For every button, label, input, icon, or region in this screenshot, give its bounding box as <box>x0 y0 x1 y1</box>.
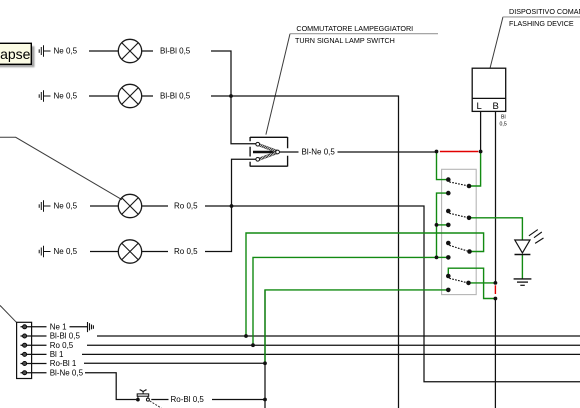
svg-text:Ne 0,5: Ne 0,5 <box>54 202 78 211</box>
svg-text:DISPOSITIVO COMANDO FRECCE: DISPOSITIVO COMANDO FRECCE <box>509 7 580 16</box>
svg-text:Ro-Bl 0,5: Ro-Bl 0,5 <box>171 395 205 404</box>
svg-text:Bl-Ne 0,5: Bl-Ne 0,5 <box>302 148 336 157</box>
svg-text:Ro-Bl 1: Ro-Bl 1 <box>50 359 77 368</box>
svg-text:Bl-Bl 0,5: Bl-Bl 0,5 <box>50 332 81 341</box>
svg-text:Ro 0,5: Ro 0,5 <box>174 247 198 256</box>
svg-text:Bl-Bl 0,5: Bl-Bl 0,5 <box>160 92 191 101</box>
svg-text:COMMUTATORE LAMPEGGIATORI: COMMUTATORE LAMPEGGIATORI <box>296 24 413 33</box>
svg-text:Ro 0,5: Ro 0,5 <box>50 341 74 350</box>
svg-text:FLASHING DEVICE: FLASHING DEVICE <box>509 19 574 28</box>
svg-text:L: L <box>477 101 482 112</box>
svg-text:lapse: lapse <box>0 46 31 62</box>
svg-text:Bl 1: Bl 1 <box>50 350 64 359</box>
svg-text:Ne 0,5: Ne 0,5 <box>54 92 78 101</box>
svg-text:Ne 0,5: Ne 0,5 <box>54 247 78 256</box>
svg-text:Ro 0,5: Ro 0,5 <box>174 202 198 211</box>
svg-text:Ne 0,5: Ne 0,5 <box>54 47 78 56</box>
svg-text:Bl-Bl 0,5: Bl-Bl 0,5 <box>160 47 191 56</box>
svg-text:Bl: Bl <box>501 115 506 121</box>
svg-text:Ne 1: Ne 1 <box>50 322 67 331</box>
svg-text:0,5: 0,5 <box>500 122 507 128</box>
svg-text:B: B <box>493 101 499 112</box>
svg-text:Bl-Ne 0,5: Bl-Ne 0,5 <box>50 368 84 377</box>
svg-text:TURN SIGNAL LAMP SWITCH: TURN SIGNAL LAMP SWITCH <box>295 36 395 45</box>
